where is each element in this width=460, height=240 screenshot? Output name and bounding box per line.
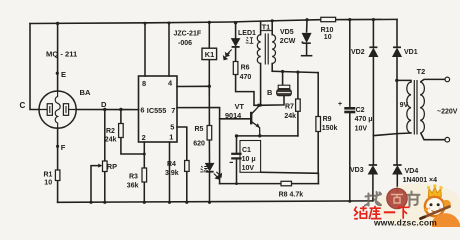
wire IC pin 4 to bus — [168, 23, 170, 76]
wire T1 primary left down to collector node — [259, 64, 261, 106]
resistor R6 — [233, 62, 238, 75]
svg-text:1N4001 ×4: 1N4001 ×4 — [403, 177, 438, 184]
wire R2 branch — [120, 110, 122, 124]
wire T2 primary top to terminal — [421, 79, 445, 81]
wire R7 column — [297, 72, 299, 99]
svg-text:R2: R2 — [106, 128, 115, 135]
junction ground LED2 — [208, 201, 211, 204]
svg-text:B: B — [267, 88, 272, 97]
wire RP wiper to ground — [91, 166, 100, 203]
junction bus VD5 — [305, 18, 308, 21]
svg-text:www.dzsc.com: www.dzsc.com — [373, 217, 437, 227]
svg-text:VD2: VD2 — [351, 49, 365, 56]
svg-text:BA: BA — [80, 88, 91, 97]
capacitor C2 plates — [344, 108, 355, 112]
transformer T2 — [407, 77, 450, 142]
svg-text:K1: K1 — [205, 50, 214, 59]
svg-text:VD1: VD1 — [404, 49, 418, 56]
svg-text:-006: -006 — [178, 40, 192, 47]
svg-text:F: F — [61, 143, 66, 152]
wire emitter rail C1 to R7 — [237, 135, 298, 137]
buzzer B — [277, 85, 292, 96]
IC 555 body — [139, 76, 178, 142]
wire VD1 VD4 column — [396, 19, 398, 47]
resistor R8 on rail — [281, 181, 292, 186]
T2 secondary 9V winding — [407, 82, 411, 133]
svg-text:T2: T2 — [417, 67, 426, 76]
capacitor C1 plates — [230, 154, 242, 163]
T1 left winding — [257, 35, 260, 64]
junction R7 top — [296, 71, 299, 74]
svg-text:R8 4.7k: R8 4.7k — [279, 191, 304, 198]
wire C1 column — [236, 136, 238, 153]
potentiometer RP body — [103, 161, 108, 172]
LED1 diode symbol — [224, 39, 240, 60]
svg-text:R6: R6 — [241, 65, 250, 72]
T2 core — [414, 80, 417, 135]
svg-text:10V: 10V — [355, 126, 368, 133]
junction bus LED1 — [234, 21, 237, 24]
junction bus T1 right — [271, 19, 274, 22]
wire IC pin 2 through R3 to ground — [143, 142, 145, 168]
svg-text:1: 1 — [169, 133, 173, 142]
wire bottom ground bus — [58, 201, 373, 202]
terminal circle top — [445, 77, 450, 82]
junction bus VD2 — [372, 18, 375, 21]
svg-text:VT: VT — [235, 102, 245, 111]
svg-text:E: E — [61, 70, 66, 79]
wire left vertical from bus to sensor C — [30, 24, 39, 110]
svg-text:R7: R7 — [285, 104, 294, 111]
wire R9 column — [317, 73, 319, 117]
junction T1 left bottom — [259, 104, 262, 107]
svg-text:LED1: LED1 — [238, 30, 256, 37]
svg-text:~220V: ~220V — [437, 109, 458, 116]
svg-text:5: 5 — [170, 123, 174, 132]
junction bus pin8 — [144, 22, 147, 25]
chinese char green (lv) for LED2 — [200, 166, 208, 172]
watermark red text wei — [354, 206, 367, 219]
junction bus E wire — [56, 22, 59, 25]
svg-text:36k: 36k — [127, 183, 139, 190]
relay coil K1 box — [202, 48, 217, 59]
svg-text:8: 8 — [142, 79, 146, 88]
LED2 diode symbol — [206, 163, 222, 179]
watermark gray char zhao — [365, 192, 381, 206]
watermark red text ku — [369, 206, 381, 219]
wire collector node to buzzer bottom — [259, 96, 284, 106]
junction bus C2 — [348, 18, 351, 21]
potentiometer RP wiper arrowhead — [98, 164, 102, 168]
svg-text:9V: 9V — [400, 102, 409, 109]
svg-text:R9: R9 — [323, 116, 332, 123]
wire base feed to VT — [220, 118, 251, 120]
wire T1 right bottom to feedback rail — [271, 64, 273, 72]
watermark red text xia — [398, 207, 410, 219]
wire IC pin 5 through R4 to ground — [177, 127, 187, 161]
svg-text:C: C — [20, 101, 26, 110]
watermark mascot arm and pencil — [421, 200, 451, 219]
diode VD3 symbol — [369, 165, 378, 174]
svg-text:IC555: IC555 — [147, 106, 166, 115]
T1 core — [265, 33, 268, 64]
svg-text:150k: 150k — [322, 125, 338, 132]
zener VD5 symbol — [302, 33, 310, 43]
wire feedback rail to R9 — [272, 71, 318, 72]
terminal circle bottom — [445, 137, 450, 142]
junction bus K1 — [208, 21, 211, 24]
svg-text:+: + — [338, 101, 342, 108]
svg-text:470 μ: 470 μ — [355, 116, 373, 123]
junction ground pin1 — [168, 201, 171, 204]
wire top supply bus — [30, 19, 397, 23]
T2 primary winding — [420, 82, 424, 133]
wire T2 secondary top tap — [397, 80, 411, 82]
wire sensor D to IC pin 6 — [76, 109, 138, 111]
resistor R2 — [119, 124, 124, 138]
wire C2 column — [349, 20, 351, 107]
node E — [56, 72, 59, 75]
svg-text:10: 10 — [44, 180, 52, 187]
svg-text:C1: C1 — [242, 147, 251, 154]
svg-text:10 μ: 10 μ — [242, 156, 256, 163]
T1 label underline — [260, 30, 272, 32]
junction bus pin4 — [168, 22, 171, 25]
transistor VT 9014 — [251, 106, 260, 136]
node F — [56, 145, 59, 148]
wire LED1 R6 column — [235, 23, 237, 38]
diode VD2 symbol — [369, 47, 377, 56]
svg-text:R1: R1 — [44, 172, 53, 179]
wire sensor E to bus — [57, 23, 59, 91]
VD5 end bar — [302, 55, 312, 57]
resistor R1 — [55, 170, 60, 181]
svg-text:6: 6 — [140, 106, 144, 115]
wire C1 box lower rail to R9 bottom — [261, 172, 319, 173]
T1 right winding — [272, 35, 275, 64]
wire VD5 branch from bus — [306, 20, 308, 32]
svg-text:VD3: VD3 — [350, 167, 364, 174]
junction ground RP — [103, 201, 106, 204]
wire IC pin 8 to bus — [144, 23, 146, 76]
wire T2 primary bottom to terminal — [421, 134, 445, 140]
watermark red seal emblem — [387, 188, 408, 209]
chinese char red (hong) for LED1 — [246, 37, 254, 43]
junction ground C2 — [348, 200, 351, 203]
wire buzzer top — [282, 72, 284, 86]
svg-text:VD5: VD5 — [280, 29, 294, 36]
diode VD4 symbol — [393, 165, 402, 174]
watermark red text yi — [384, 211, 395, 213]
wire IC pin 3 to K1 node — [177, 85, 209, 87]
junction T2 tap VD1 column — [395, 79, 398, 82]
junction R2 pin2 — [143, 153, 146, 156]
junction C1 bottom R8 rail — [235, 182, 238, 185]
watermark mascot crown — [427, 184, 443, 197]
resistor R9 — [316, 117, 321, 132]
svg-text:D: D — [101, 100, 107, 109]
diode VD1 symbol — [393, 47, 401, 56]
node collector — [257, 104, 260, 107]
wire IC pin 1 to ground — [169, 142, 171, 202]
junction D R2 — [119, 108, 122, 111]
C1 value box — [240, 141, 261, 173]
svg-text:3.9k: 3.9k — [165, 170, 179, 177]
gas sensor MQ-211 — [39, 91, 76, 128]
wire T1 right top to bus — [271, 21, 273, 35]
resistor R5 — [207, 126, 212, 141]
svg-text:JZC-21F: JZC-21F — [174, 31, 202, 38]
junction ground R4 — [185, 201, 188, 204]
svg-text:24k: 24k — [105, 137, 117, 144]
svg-text:2CW: 2CW — [280, 38, 296, 45]
svg-text:RP: RP — [107, 162, 117, 171]
junction ground RP wiper — [89, 201, 92, 204]
junction buzzer top — [281, 70, 284, 73]
resistor R3 — [142, 168, 147, 182]
svg-text:24k: 24k — [284, 113, 296, 120]
svg-text:R5: R5 — [195, 126, 204, 133]
resistor R4 — [185, 161, 190, 172]
transformer T1 — [257, 31, 275, 65]
wire VD2 VD3 column — [372, 20, 374, 47]
node pin3 K1 R5 — [208, 85, 211, 88]
resistor R10 on bus — [321, 17, 336, 21]
svg-text:10: 10 — [324, 34, 332, 41]
watermark mascot body swoosh — [432, 213, 460, 227]
svg-text:C2: C2 — [356, 107, 365, 114]
svg-text:9014: 9014 — [225, 111, 242, 120]
svg-text:MQ - 211: MQ - 211 — [46, 50, 78, 59]
junction C1 top — [235, 134, 238, 137]
wire T1 left top to bus — [260, 21, 262, 34]
watermark mascot head — [425, 197, 444, 216]
node D — [103, 108, 106, 111]
wire node pin3 down through R5 LED2 to ground — [208, 86, 210, 125]
wire IC pin 7 right then down to R8 rail — [177, 108, 220, 184]
svg-text:7: 7 — [171, 106, 175, 115]
svg-text:VD4: VD4 — [405, 168, 419, 175]
svg-text:R3: R3 — [129, 174, 138, 181]
wire R8 rail — [220, 183, 319, 185]
node emitter — [258, 134, 261, 137]
svg-text:470: 470 — [240, 74, 252, 81]
svg-text:2: 2 — [142, 133, 146, 142]
wire node D down through RP to ground — [104, 110, 106, 162]
wire K1 column from bus through relay coil — [208, 22, 210, 48]
svg-text:620: 620 — [193, 141, 205, 148]
resistor bodies — [55, 17, 335, 186]
watermark gray char pian — [408, 192, 420, 207]
wire sensor F down to R1 and bus — [57, 128, 59, 170]
resistor R7 — [296, 99, 301, 111]
svg-text:10V: 10V — [242, 165, 255, 172]
watermark glow — [378, 183, 460, 229]
wire T2 secondary bottom to VD2 column — [373, 133, 411, 136]
svg-text:T1: T1 — [262, 22, 270, 31]
svg-text:R4: R4 — [167, 161, 176, 168]
junction ground R3 — [143, 201, 146, 204]
